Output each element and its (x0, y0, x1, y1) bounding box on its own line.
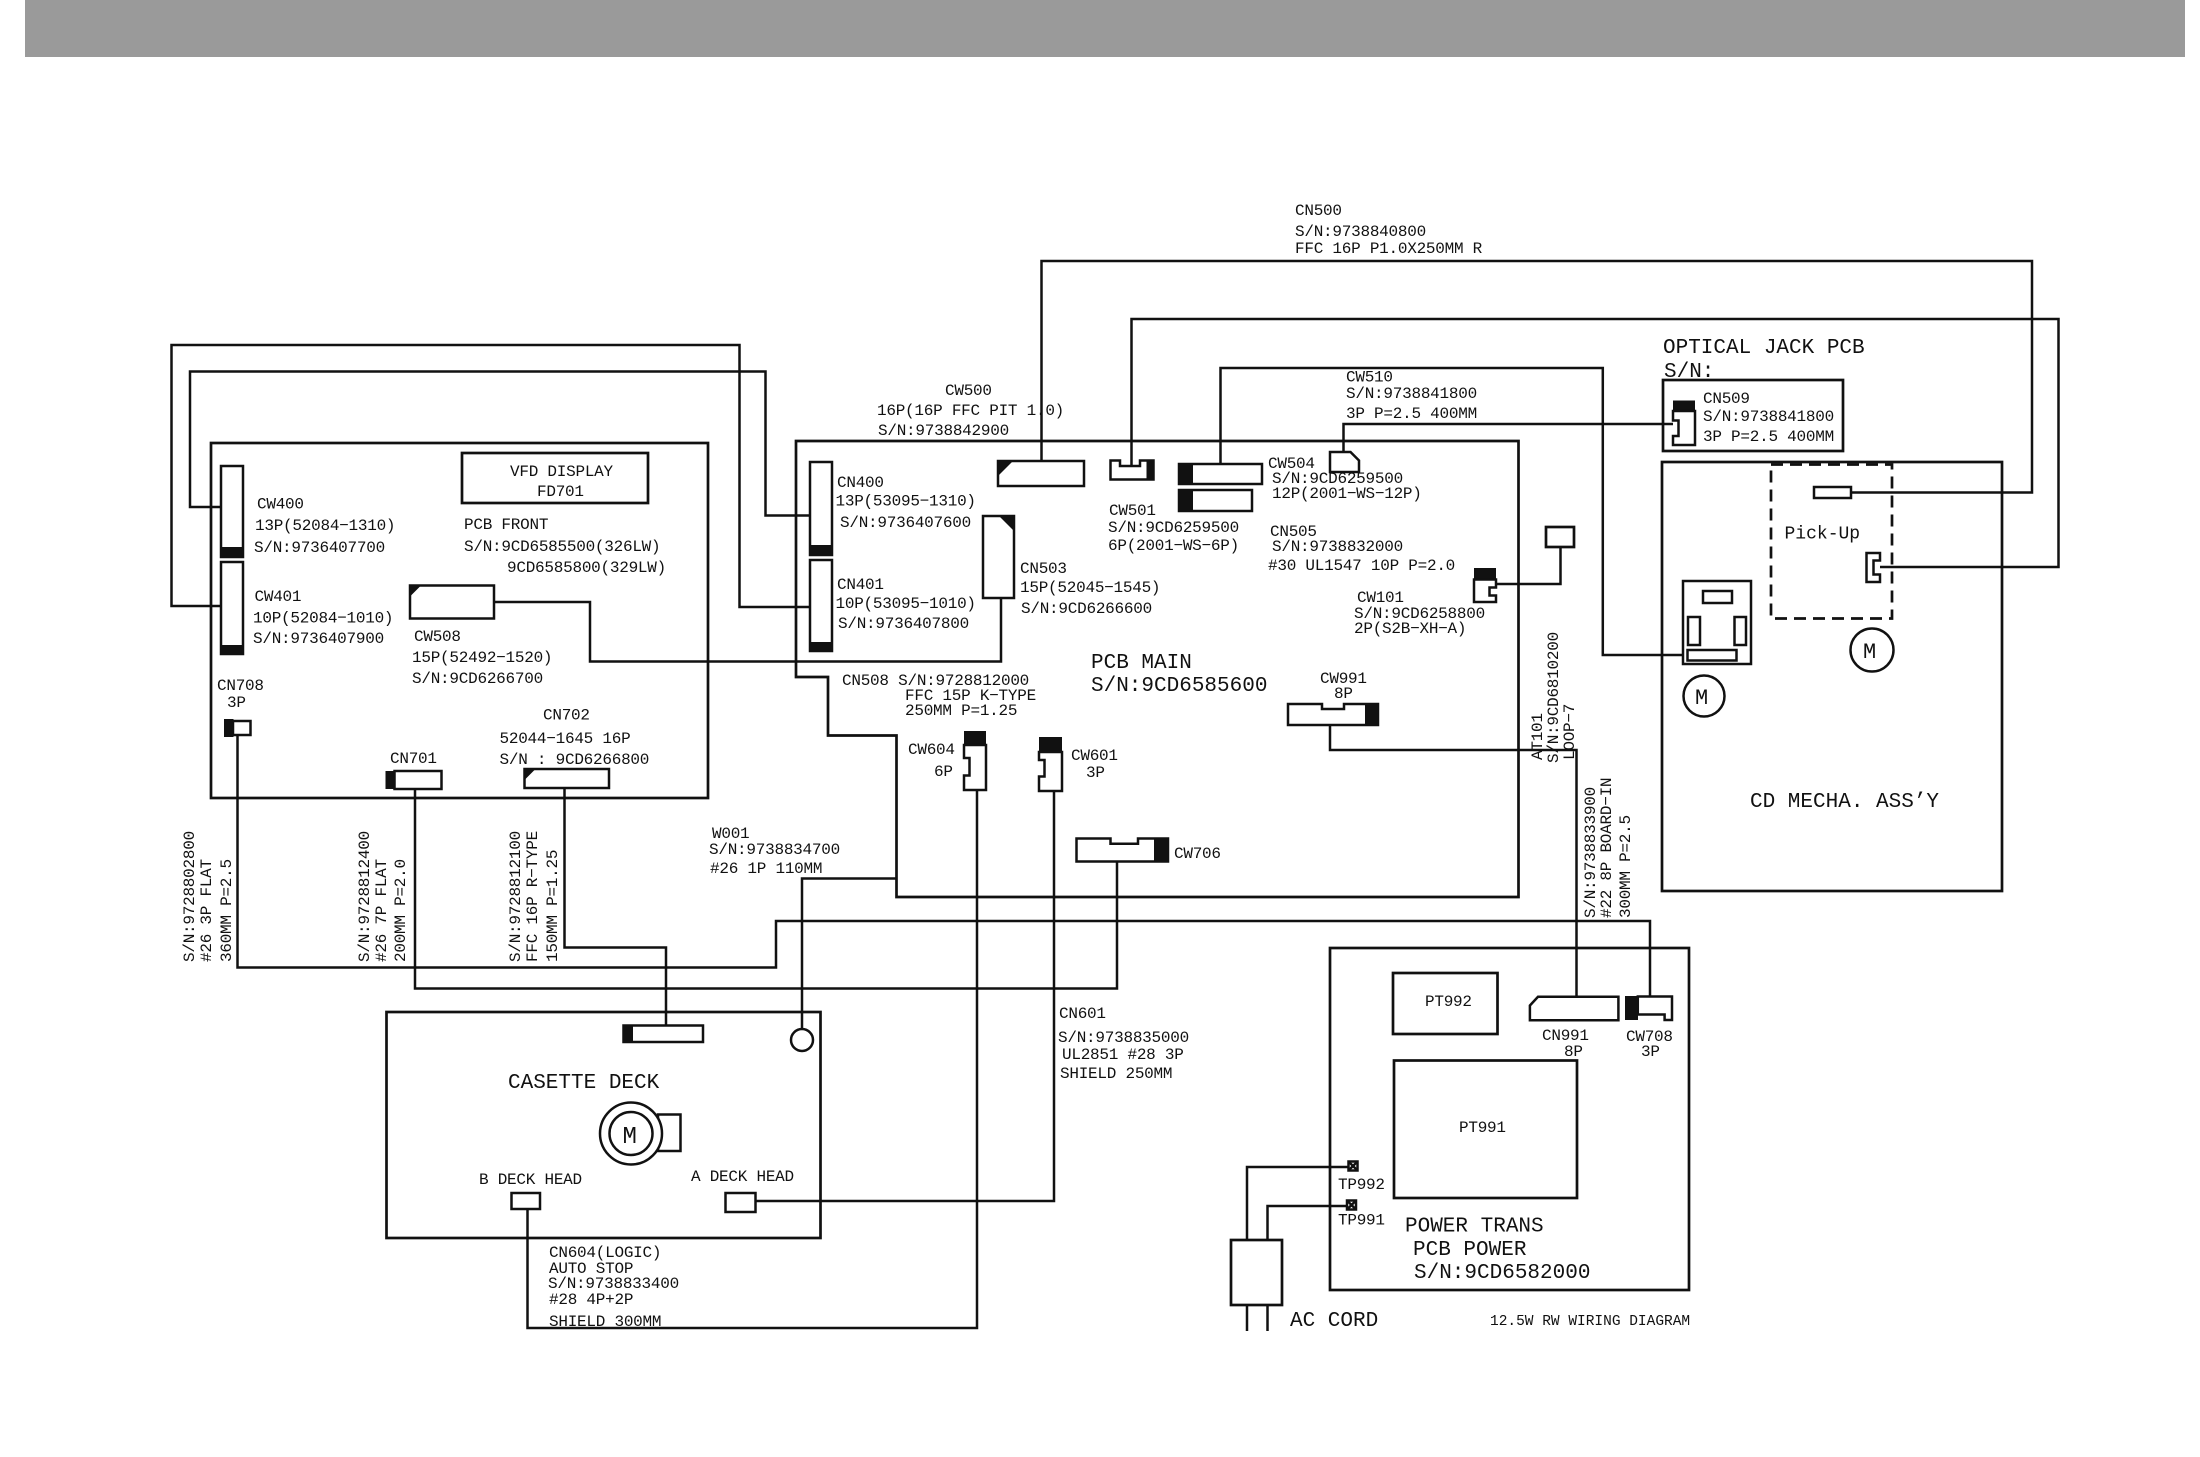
connector CN503 (PCB MAIN) (983, 516, 1014, 598)
svg-text:S/N:9CD6259500: S/N:9CD6259500 (1108, 519, 1239, 537)
PT991 box (1394, 1061, 1577, 1199)
connector CW601 (PCB MAIN) (1039, 737, 1062, 791)
svg-text:CN509: CN509 (1703, 390, 1750, 408)
svg-text:#26 1P 110MM: #26 1P 110MM (710, 860, 822, 878)
svg-text:16P(16P FFC PIT 1.0): 16P(16P FFC PIT 1.0) (877, 402, 1064, 420)
A deck head connector (726, 1193, 756, 1212)
svg-text:S/N:9738840800: S/N:9738840800 (1295, 223, 1426, 241)
CD mecha connector block (1683, 581, 1751, 664)
wire CN702 to casette deck connector (565, 788, 667, 1026)
svg-text:CW401: CW401 (255, 588, 302, 606)
svg-text:TP991: TP991 (1338, 1212, 1385, 1230)
connector 6P CN505 (PCB MAIN) (1179, 490, 1252, 511)
svg-text:M: M (1863, 640, 1876, 665)
svg-text:S/N:9736407600: S/N:9736407600 (840, 514, 971, 532)
connector CN701 (PCB FRONT) (386, 771, 442, 789)
connector CW504 pentagon (PCB MAIN) (1330, 452, 1359, 472)
connector CN509 (OPTICAL JACK PCB) (1673, 401, 1695, 446)
wire CW400 to CN400 (inner loop) (190, 372, 810, 516)
svg-text:PT992: PT992 (1425, 993, 1472, 1011)
svg-text:M: M (623, 1124, 637, 1151)
wire AC cord tail 1 (1246, 1305, 1249, 1331)
svg-text:CN708: CN708 (217, 677, 264, 695)
PCB MAIN board outline (notched bottom-left) (796, 441, 1519, 897)
pick-up C connector (1867, 553, 1881, 582)
pick-up small connector (1814, 487, 1851, 498)
svg-text:12.5W RW WIRING DIAGRAM: 12.5W RW WIRING DIAGRAM (1490, 1314, 1690, 1330)
wire AC cord to TP992 (1247, 1167, 1349, 1240)
AC CORD plug box (1231, 1240, 1282, 1305)
svg-text:CW601: CW601 (1071, 747, 1118, 765)
svg-text:TP992: TP992 (1338, 1176, 1385, 1194)
svg-text:3P: 3P (1641, 1043, 1660, 1061)
svg-text:13P(52084−1310): 13P(52084−1310) (255, 517, 395, 535)
connector CW706 (PCB MAIN) (1077, 839, 1169, 862)
svg-text:PCB MAIN: PCB MAIN (1091, 652, 1192, 675)
svg-text:S/N:9738842900: S/N:9738842900 (878, 422, 1009, 440)
svg-text:Pick-Up: Pick-Up (1785, 525, 1861, 545)
svg-text:S/N:9CD6585500(326LW): S/N:9CD6585500(326LW) (464, 538, 660, 556)
connector CW604 (PCB MAIN) (964, 731, 986, 790)
svg-text:9CD6585800(329LW): 9CD6585800(329LW) (507, 559, 666, 577)
connector CW500 (PCB MAIN) (998, 461, 1084, 486)
svg-text:#22 8P BOARD−IN: #22 8P BOARD−IN (1598, 778, 1616, 918)
CASETTE DECK box (387, 1012, 821, 1238)
svg-text:S/N : 9CD6266800: S/N : 9CD6266800 (500, 751, 650, 769)
svg-text:OPTICAL JACK PCB: OPTICAL JACK PCB (1663, 337, 1865, 360)
OPTICAL JACK PCB box (1663, 380, 1843, 451)
svg-text:S/N:9728802800: S/N:9728802800 (181, 831, 199, 962)
connector CW708 (PCB POWER) (1625, 996, 1672, 1020)
connector CW400 (PCB FRONT) (221, 466, 243, 557)
svg-text:PCB FRONT: PCB FRONT (464, 516, 548, 534)
svg-text:A DECK HEAD: A DECK HEAD (691, 1168, 794, 1186)
svg-text:S/N:9728812400: S/N:9728812400 (356, 831, 374, 962)
svg-text:S/N:9738834700: S/N:9738834700 (709, 841, 840, 859)
svg-text:POWER TRANS: POWER TRANS (1405, 1216, 1544, 1239)
PT992 box (1393, 973, 1498, 1034)
CD MECHA ASS'Y box (1662, 462, 2002, 891)
svg-text:B DECK HEAD: B DECK HEAD (479, 1171, 582, 1189)
svg-text:UL2851 #28 3P: UL2851 #28 3P (1062, 1046, 1184, 1064)
svg-text:S/N:9738841800: S/N:9738841800 (1346, 385, 1477, 403)
svg-text:6P(2001−WS−6P): 6P(2001−WS−6P) (1108, 537, 1239, 555)
casette deck top connector (624, 1026, 704, 1043)
svg-text:360MM P=2.5: 360MM P=2.5 (218, 859, 236, 962)
svg-text:13P(53095−1310): 13P(53095−1310) (836, 493, 976, 511)
svg-text:8P: 8P (1334, 685, 1353, 703)
svg-text:CN401: CN401 (837, 576, 884, 594)
svg-text:3P: 3P (227, 694, 246, 712)
svg-text:S/N:9CD6266600: S/N:9CD6266600 (1021, 600, 1152, 618)
POWER TRANS PCB POWER box (1330, 948, 1689, 1290)
svg-text:10P(53095−1010): 10P(53095−1010) (836, 595, 976, 613)
svg-text:S/N:9CD6582000: S/N:9CD6582000 (1414, 1262, 1590, 1285)
wire CW500 to pick-up via CN500 FFC (1042, 261, 2033, 493)
VFD DISPLAY FD701 box (462, 453, 648, 503)
svg-text:M: M (1695, 686, 1708, 711)
svg-text:S/N:9728812100: S/N:9728812100 (507, 831, 525, 962)
Pick-Up dashed box (1771, 465, 1892, 619)
svg-text:6P: 6P (934, 763, 953, 781)
wire CN701 to CW706 (415, 789, 1117, 989)
connector CW101 (PCB MAIN) (1474, 568, 1496, 602)
svg-text:3P P=2.5 400MM: 3P P=2.5 400MM (1346, 405, 1477, 423)
connector CN401 (PCB MAIN) (810, 560, 832, 651)
wire CN708 to CW708 (238, 735, 1651, 996)
PCB FRONT board outline (211, 443, 708, 798)
wire CW101 to AT101 (1496, 547, 1561, 584)
svg-text:SHIELD 300MM: SHIELD 300MM (549, 1313, 661, 1331)
svg-text:PCB POWER: PCB POWER (1413, 1239, 1527, 1262)
wire W001 (802, 879, 897, 1030)
connector CN991 (PCB POWER) (1530, 997, 1619, 1020)
svg-text:LOOP−7: LOOP−7 (1561, 704, 1579, 760)
svg-text:15P(52492−1520): 15P(52492−1520) (412, 649, 552, 667)
svg-text:#30 UL1547 10P P=2.0: #30 UL1547 10P P=2.0 (1268, 557, 1455, 575)
motor M CD mecha right (pick-up) (1851, 629, 1894, 672)
svg-text:CN503: CN503 (1020, 560, 1067, 578)
svg-text:15P(52045−1545): 15P(52045−1545) (1020, 579, 1160, 597)
svg-text:8P: 8P (1564, 1043, 1583, 1061)
svg-text:#26 3P FLAT: #26 3P FLAT (198, 859, 216, 962)
connector CN708 (PCB FRONT) (224, 719, 251, 737)
svg-text:#28 4P+2P: #28 4P+2P (549, 1291, 633, 1309)
svg-text:2P(S2B−XH−A): 2P(S2B−XH−A) (1354, 620, 1466, 638)
svg-text:3P: 3P (1086, 764, 1105, 782)
svg-text:S/N:9CD6585600: S/N:9CD6585600 (1091, 675, 1267, 698)
svg-text:S/N:9736407700: S/N:9736407700 (254, 539, 385, 557)
wire CW604 to CN604 B deck head (528, 790, 978, 1328)
svg-text:S/N:9736407900: S/N:9736407900 (253, 630, 384, 648)
svg-text:200MM P=2.0: 200MM P=2.0 (392, 859, 410, 962)
wire CW991 to CN991 (1330, 725, 1577, 996)
wire AC cord to TP991 (1268, 1206, 1348, 1240)
svg-text:CASETTE DECK: CASETTE DECK (508, 1072, 660, 1095)
svg-text:S/N:9738835000: S/N:9738835000 (1058, 1029, 1189, 1047)
svg-text:CN601: CN601 (1059, 1005, 1106, 1023)
svg-text:250MM P=1.25: 250MM P=1.25 (905, 702, 1017, 720)
svg-text:FD701: FD701 (537, 483, 584, 501)
AT101 box (1546, 527, 1574, 547)
svg-text:CW400: CW400 (257, 496, 304, 514)
header gray bar (25, 0, 2185, 57)
svg-text:PT991: PT991 (1459, 1119, 1506, 1137)
connector CW991 (PCB MAIN) (1288, 704, 1378, 725)
svg-text:S/N:9CD6266700: S/N:9CD6266700 (412, 670, 543, 688)
wire CW508 to CN503 (494, 598, 1001, 662)
connector 12P (PCB MAIN) (1179, 464, 1262, 484)
svg-text:12P(2001−WS−12P): 12P(2001−WS−12P) (1272, 485, 1422, 503)
svg-text:10P(52084−1010): 10P(52084−1010) (253, 610, 393, 628)
connector CN702 (PCB FRONT) (525, 769, 610, 788)
connector CW401 (PCB FRONT) (221, 562, 243, 654)
svg-text:CN701: CN701 (390, 750, 437, 768)
svg-text:FFC 16P P1.0X250MM R: FFC 16P P1.0X250MM R (1295, 240, 1483, 258)
connector CN400 (PCB MAIN) (810, 462, 832, 555)
svg-text:VFD DISPLAY: VFD DISPLAY (510, 463, 614, 481)
svg-text:S/N:9738832000: S/N:9738832000 (1272, 538, 1403, 556)
wire CW601 to A deck head (CN601) (756, 791, 1055, 1201)
svg-text:S/N:9738841800: S/N:9738841800 (1703, 408, 1834, 426)
connector CW501 mate 6P small (PCB MAIN) (1111, 461, 1154, 480)
svg-text:CW508: CW508 (414, 628, 461, 646)
svg-text:CW706: CW706 (1174, 845, 1221, 863)
wire CW510 CW504-pentagon to CN509 (1344, 424, 1674, 452)
svg-text:CW604: CW604 (908, 741, 955, 759)
svg-text:150MM P=1.25: 150MM P=1.25 (544, 850, 562, 962)
svg-text:S/N:9736407800: S/N:9736407800 (838, 615, 969, 633)
svg-text:CW510: CW510 (1346, 369, 1393, 387)
svg-text:S/N:: S/N: (1664, 361, 1714, 384)
svg-text:3P P=2.5 400MM: 3P P=2.5 400MM (1703, 428, 1834, 446)
svg-text:AC CORD: AC CORD (1290, 1310, 1378, 1333)
svg-text:CN702: CN702 (543, 707, 590, 725)
test point TP991 (1347, 1201, 1356, 1210)
svg-text:CN400: CN400 (837, 474, 884, 492)
svg-text:FFC 16P R−TYPE: FFC 16P R−TYPE (524, 831, 542, 962)
test point TP992 (1349, 1162, 1358, 1171)
svg-text:CN500: CN500 (1295, 202, 1342, 220)
connector CW508 (PCB FRONT) (410, 586, 494, 619)
wire CW501 to pick-up C connector (1132, 319, 2059, 567)
svg-text:52044−1645 16P: 52044−1645 16P (500, 730, 631, 748)
svg-text:SHIELD 250MM: SHIELD 250MM (1060, 1065, 1172, 1083)
svg-text:CW500: CW500 (945, 382, 992, 400)
svg-text:CW501: CW501 (1109, 502, 1156, 520)
wire AC cord tail 2 (1266, 1305, 1269, 1331)
casette W001 circle connector (791, 1029, 813, 1051)
wire CW401 to CN401 (outer loop) (172, 345, 811, 607)
svg-text:300MM P=2.5: 300MM P=2.5 (1617, 815, 1635, 918)
svg-text:CD MECHA. ASS’Y: CD MECHA. ASS’Y (1750, 791, 1939, 814)
B deck head connector (512, 1193, 541, 1209)
svg-text:#26 7P FLAT: #26 7P FLAT (373, 859, 391, 962)
wire 12P CW504 to CD mecha block (1221, 368, 1690, 655)
casette motor M (600, 1103, 681, 1165)
motor M CD mecha left (1684, 676, 1725, 717)
